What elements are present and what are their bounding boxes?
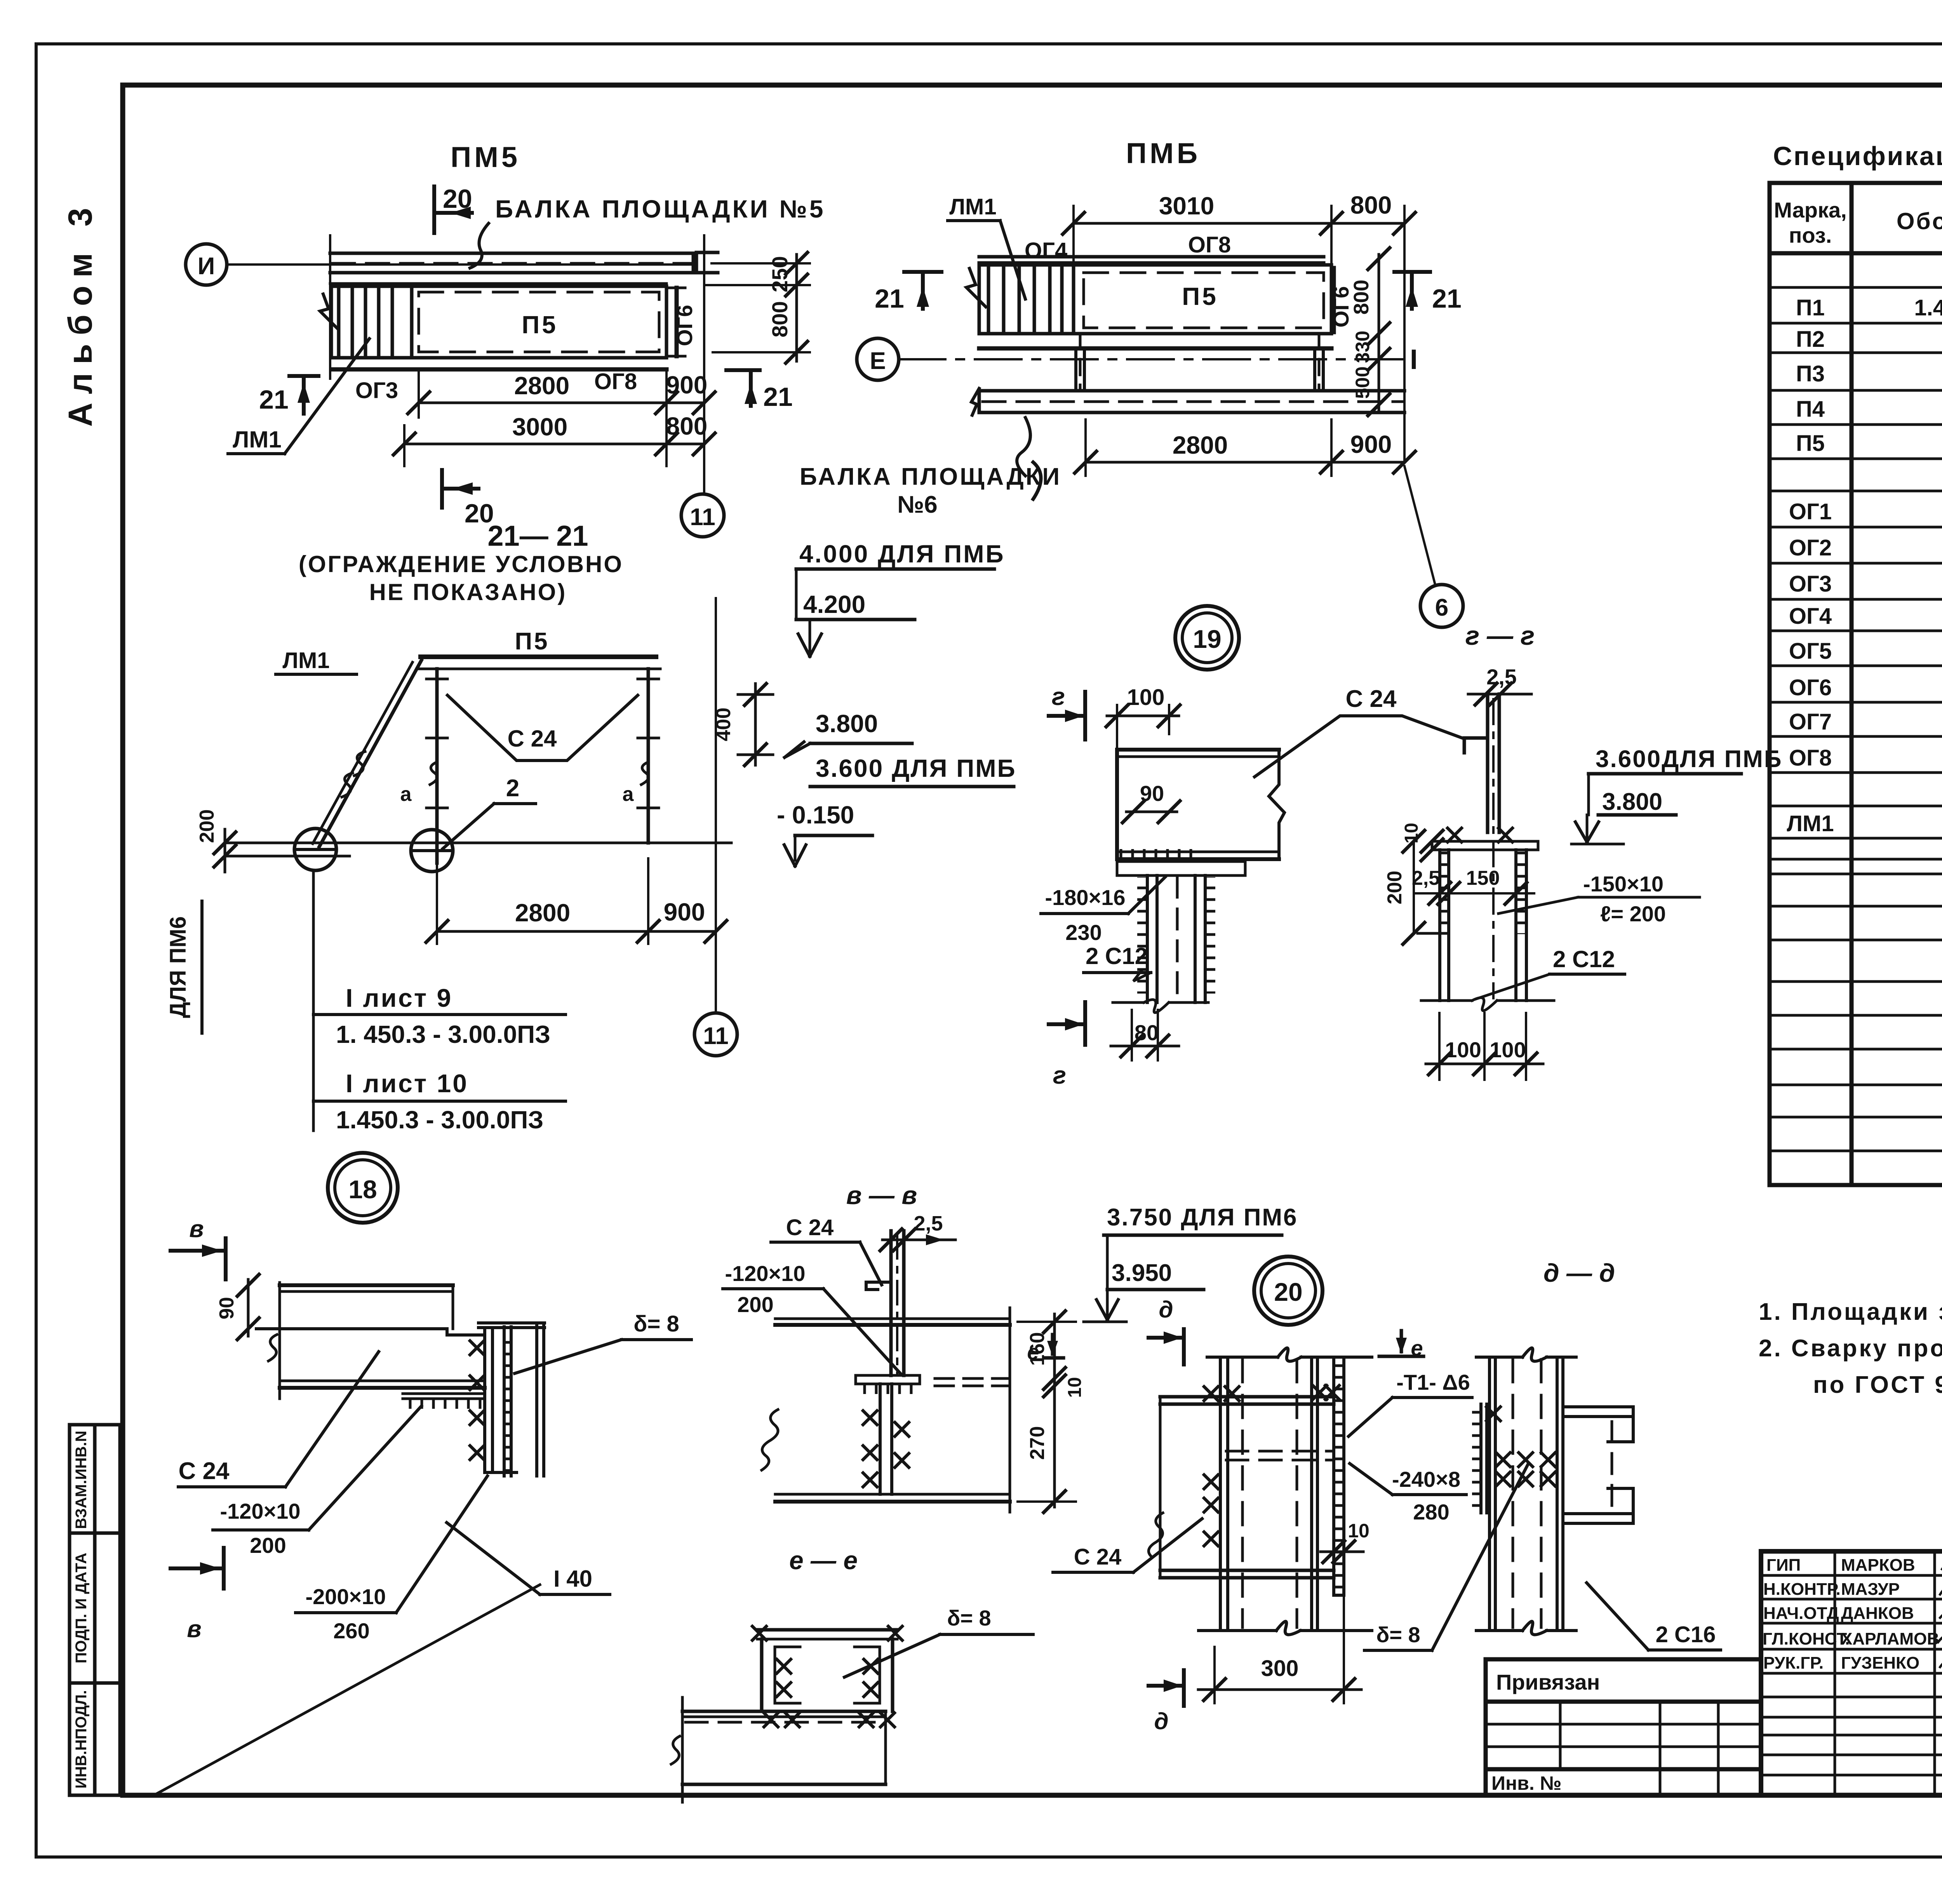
svg-text:2,5: 2,5 <box>1486 665 1517 689</box>
svg-text:ДЛЯ ПМ6: ДЛЯ ПМ6 <box>165 916 191 1018</box>
svg-text:21: 21 <box>1432 284 1462 313</box>
svg-text:ПМБ: ПМБ <box>1126 137 1201 169</box>
svg-text:800: 800 <box>666 412 708 440</box>
svg-text:I лист 10: I лист 10 <box>346 1069 468 1098</box>
svg-text:П5: П5 <box>522 311 558 339</box>
svg-text:4.200: 4.200 <box>803 590 865 618</box>
axis E circle and line <box>857 338 899 380</box>
svg-text:ПОДП. И ДАТА: ПОДП. И ДАТА <box>73 1553 90 1664</box>
box top plate <box>757 1628 897 1632</box>
walkway top edge <box>330 282 666 285</box>
axis circle 11 <box>681 494 724 537</box>
LEFT STAMP <box>70 1425 120 1795</box>
header texts <box>1774 198 1942 247</box>
svg-text:19: 19 <box>1193 625 1221 653</box>
section mark 21 left <box>904 272 941 309</box>
channel flange hook <box>866 1281 891 1284</box>
svg-text:НЕ ПОКАЗАНО): НЕ ПОКАЗАНО) <box>369 579 567 605</box>
left extension line <box>329 235 331 379</box>
section mark 21 left <box>289 376 318 414</box>
elevation right marks 400 <box>738 684 773 765</box>
NOTES <box>1759 1298 1942 1398</box>
inner channels <box>775 1647 800 1703</box>
svg-text:ОГ4: ОГ4 <box>1025 238 1067 263</box>
box sides <box>762 1639 893 1711</box>
svg-text:3000: 3000 <box>512 413 567 441</box>
svg-text:ПМ5: ПМ5 <box>451 141 520 173</box>
beam end bracket <box>696 252 718 273</box>
svg-text:200: 200 <box>1383 871 1406 905</box>
right vertical dims 800/330/500 <box>1378 254 1380 412</box>
svg-text:ГУЗЕНКО: ГУЗЕНКО <box>1841 1653 1919 1673</box>
posts to lower beam <box>1076 348 1323 391</box>
T1 plate <box>1332 1357 1335 1595</box>
svg-text:90: 90 <box>216 1297 238 1319</box>
column det20 cut lines <box>1207 1356 1278 1359</box>
axis 11 line + circle <box>715 598 717 1013</box>
svg-text:ЛМ1: ЛМ1 <box>949 194 996 219</box>
svg-text:900: 900 <box>664 898 705 926</box>
packer plate <box>403 1392 485 1395</box>
svg-text:900: 900 <box>666 371 708 399</box>
dim 2800/900 <box>1086 419 1331 476</box>
section mark 21 right <box>1394 272 1430 309</box>
svg-text:ОГ3: ОГ3 <box>1789 571 1832 597</box>
rib below plate <box>880 1384 892 1494</box>
dim line 3000/800 <box>404 443 704 446</box>
svg-text:3.600 ДЛЯ ПМБ: 3.600 ДЛЯ ПМБ <box>816 754 1016 782</box>
-240x8 plate in d-d <box>1479 1404 1483 1513</box>
ladder break arrow <box>320 294 338 329</box>
dim 2800/900 elevation <box>437 858 648 944</box>
svg-text:800: 800 <box>1350 191 1392 219</box>
axis line 11 vertical <box>703 235 705 494</box>
top chord <box>979 257 1324 263</box>
svg-text:20: 20 <box>443 184 472 214</box>
svg-text:3010: 3010 <box>1159 192 1214 220</box>
svg-text:П5: П5 <box>515 628 549 655</box>
svg-text:БАЛКА ПЛОЩАДКИ: БАЛКА ПЛОЩАДКИ <box>800 463 1061 490</box>
detail circle 19 <box>1175 606 1239 670</box>
signatures <box>1938 1562 1942 1673</box>
svg-text:Н.КОНТР.: Н.КОНТР. <box>1763 1580 1841 1599</box>
svg-text:260: 260 <box>333 1619 369 1643</box>
svg-text:в: в <box>189 1216 204 1243</box>
svg-text:21— 21: 21— 21 <box>487 520 588 552</box>
dim extensions <box>404 369 666 466</box>
svg-text:в — в: в — в <box>846 1181 917 1210</box>
platform P5 plan <box>412 286 666 358</box>
svg-text:ОГ5: ОГ5 <box>1789 639 1832 664</box>
svg-text:по ГОСТ 9467-75.: по ГОСТ 9467-75. <box>1813 1371 1942 1398</box>
svg-text:-240×8: -240×8 <box>1392 1467 1460 1492</box>
svg-text:Альбом 3: Альбом 3 <box>62 199 99 426</box>
svg-text:100: 100 <box>1127 685 1165 710</box>
svg-text:д — д: д — д <box>1544 1258 1615 1287</box>
svg-text:21: 21 <box>259 385 289 414</box>
svg-text:ОГ7: ОГ7 <box>1789 709 1832 734</box>
svg-text:С 24: С 24 <box>786 1215 834 1240</box>
svg-text:д: д <box>1154 1708 1168 1734</box>
svg-text:δ= 8: δ= 8 <box>633 1311 679 1337</box>
ground line <box>225 842 731 844</box>
svg-text:ИНВ.НПОДЛ.: ИНВ.НПОДЛ. <box>73 1690 90 1789</box>
svg-text:300: 300 <box>1261 1656 1299 1681</box>
svg-text:ДАНКОВ: ДАНКОВ <box>1841 1604 1914 1623</box>
beam leader label <box>1017 418 1030 476</box>
section mark 20 top <box>434 186 472 233</box>
column verticals <box>1220 1357 1317 1631</box>
svg-text:д: д <box>1159 1297 1173 1323</box>
300 dim <box>1215 1595 1344 1703</box>
beam det20 <box>1160 1397 1334 1578</box>
svg-text:250: 250 <box>767 256 792 292</box>
table grid <box>1770 183 1942 1185</box>
svg-text:г — г: г — г <box>1465 621 1535 651</box>
band below platform <box>979 332 1331 335</box>
svg-text:800: 800 <box>1350 280 1373 315</box>
svg-text:Спецификация элементов на п: Спецификация элементов на площадки ПМ1÷П… <box>1773 141 1942 171</box>
column flange <box>535 1323 538 1476</box>
svg-text:- 0.150: - 0.150 <box>777 801 854 829</box>
svg-text:Обозначение: Обозначение <box>1897 208 1942 234</box>
column end plate <box>483 1331 486 1472</box>
svg-text:3.600ДЛЯ ПМБ: 3.600ДЛЯ ПМБ <box>1596 746 1782 773</box>
svg-text:200: 200 <box>250 1533 286 1558</box>
channel C24 vertical (web) <box>1488 694 1499 832</box>
svg-text:поз.: поз. <box>1789 223 1832 247</box>
svg-text:I лист 9: I лист 9 <box>346 983 452 1012</box>
vertical channel V-V <box>891 1231 904 1375</box>
channel hook flange <box>1464 736 1488 740</box>
200 dim left <box>1413 841 1415 933</box>
svg-text:Привязан: Привязан <box>1496 1670 1600 1694</box>
svg-text:ОГ6: ОГ6 <box>672 305 697 346</box>
OG6 rail bar <box>675 288 679 356</box>
posts <box>437 669 648 863</box>
svg-text:ОГ1: ОГ1 <box>1789 499 1832 524</box>
dim line 2800/900 <box>419 402 704 404</box>
svg-text:ХАРЛАМОВ: ХАРЛАМОВ <box>1841 1629 1939 1648</box>
svg-text:е — е: е — е <box>789 1546 858 1575</box>
beam below e-e <box>682 1710 886 1713</box>
TITLE BLOCK <box>1761 1551 1942 1795</box>
svg-text:δ= 8: δ= 8 <box>1376 1622 1420 1647</box>
lower beam no.6 <box>979 391 1404 412</box>
2C16 beam section right <box>1564 1407 1633 1523</box>
svg-text:900: 900 <box>1350 430 1392 458</box>
right vertical dims 250/800 <box>706 263 810 352</box>
svg-text:ОГ8: ОГ8 <box>594 369 637 394</box>
slab <box>421 654 656 659</box>
beam V-V <box>775 1319 1010 1494</box>
svg-text:ГЛ.КОНСТ.: ГЛ.КОНСТ. <box>1763 1629 1850 1648</box>
det19 column bottom cut <box>1113 1001 1144 1004</box>
svg-text:№6: №6 <box>897 491 938 518</box>
svg-text:3.950: 3.950 <box>1112 1260 1172 1286</box>
svg-text:П4: П4 <box>1796 397 1825 422</box>
svg-text:а: а <box>400 783 412 806</box>
svg-text:2800: 2800 <box>514 372 569 400</box>
svg-text:-200×10: -200×10 <box>305 1584 386 1609</box>
svg-text:10: 10 <box>1348 1520 1369 1542</box>
svg-text:100: 100 <box>1445 1037 1481 1062</box>
column 2C12 det19 <box>1147 875 1205 1002</box>
section mark g bottom <box>1049 1002 1085 1045</box>
table body <box>1787 258 1942 836</box>
ladder LM1 plan <box>331 286 412 358</box>
weld cluster <box>1496 1453 1510 1467</box>
svg-text:РУК.ГР.: РУК.ГР. <box>1763 1653 1824 1673</box>
svg-text:2800: 2800 <box>1173 431 1228 459</box>
svg-text:1. Площадки замаркированы на: 1. Площадки замаркированы на листе 19. <box>1759 1298 1942 1325</box>
elevation arrow down to slab <box>809 620 811 656</box>
beam bottom flange <box>280 1380 485 1382</box>
column d-d cut lines <box>1476 1356 1523 1359</box>
svg-text:П5: П5 <box>1182 282 1218 310</box>
beam left edge + break <box>278 1283 281 1399</box>
svg-text:ВЗАМ.ИНВ.N: ВЗАМ.ИНВ.N <box>73 1431 90 1529</box>
svg-text:а: а <box>623 783 634 806</box>
svg-text:Инв. №: Инв. № <box>1491 1772 1561 1794</box>
svg-text:П1: П1 <box>1796 295 1825 320</box>
svg-text:2 С16: 2 С16 <box>1656 1622 1716 1647</box>
base plate det19 <box>1117 861 1245 875</box>
svg-text:г: г <box>1053 1061 1066 1089</box>
svg-text:280: 280 <box>1413 1500 1449 1524</box>
axis circle 6 <box>1404 466 1435 585</box>
svg-text:2 С12: 2 С12 <box>1553 946 1615 972</box>
plate G-G <box>1432 841 1538 850</box>
column verticals d-d <box>1490 1357 1563 1631</box>
svg-text:2800: 2800 <box>515 899 570 927</box>
svg-text:2 С12: 2 С12 <box>1086 943 1148 969</box>
svg-text:3.750 ДЛЯ ПМ6: 3.750 ДЛЯ ПМ6 <box>1107 1204 1298 1231</box>
svg-text:-150×10: -150×10 <box>1583 872 1664 896</box>
section mark 20 bottom <box>442 470 479 508</box>
svg-text:11: 11 <box>703 1023 729 1049</box>
svg-text:С 24: С 24 <box>508 726 557 752</box>
svg-text:1. 450.3 - 3.00.0ПЗ: 1. 450.3 - 3.00.0ПЗ <box>336 1020 550 1048</box>
svg-text:3.800: 3.800 <box>1602 788 1662 815</box>
svg-text:ОГ8: ОГ8 <box>1789 745 1832 771</box>
bottom rail band <box>331 356 666 359</box>
svg-text:330: 330 <box>1352 331 1373 363</box>
svg-text:2,5: 2,5 <box>914 1212 943 1235</box>
svg-text:БАЛКА ПЛОЩАДКИ №5: БАЛКА ПЛОЩАДКИ №5 <box>495 195 825 223</box>
ladder stringer <box>319 660 421 847</box>
svg-text:270: 270 <box>1026 1426 1049 1460</box>
ladder plan <box>979 265 1074 334</box>
beam top flange <box>256 1327 447 1330</box>
svg-text:4.000 ДЛЯ ПМБ: 4.000 ДЛЯ ПМБ <box>799 540 1005 568</box>
channel C24 horizontal <box>1117 750 1279 859</box>
svg-text:δ= 8: δ= 8 <box>947 1606 991 1630</box>
svg-text:-180×16: -180×16 <box>1045 885 1125 910</box>
svg-text:Е: Е <box>870 348 886 374</box>
svg-text:-120×10: -120×10 <box>725 1261 805 1286</box>
200 dim <box>224 829 226 872</box>
svg-text:3.800: 3.800 <box>816 710 878 738</box>
svg-text:ЛМ1: ЛМ1 <box>233 426 281 453</box>
svg-text:С 24: С 24 <box>1346 686 1397 712</box>
svg-text:ЛМ1: ЛМ1 <box>282 648 329 673</box>
section mark V bottom <box>171 1548 224 1589</box>
platform P5 plan <box>1074 265 1331 334</box>
svg-text:ОГ3: ОГ3 <box>355 378 398 403</box>
svg-text:П5: П5 <box>1796 431 1825 456</box>
list references <box>312 870 315 1131</box>
svg-text:10: 10 <box>1065 1377 1085 1398</box>
svg-text:МАЗУР: МАЗУР <box>1841 1580 1900 1599</box>
svg-text:С 24: С 24 <box>1074 1544 1122 1570</box>
column web <box>504 1332 512 1474</box>
svg-text:1.450.3 - 3.00.0ПЗ: 1.450.3 - 3.00.0ПЗ <box>336 1106 543 1134</box>
svg-text:-Т1- Δ6: -Т1- Δ6 <box>1396 1370 1470 1394</box>
long diagonal leader <box>155 1585 540 1794</box>
svg-text:НАЧ.ОТД: НАЧ.ОТД <box>1763 1604 1839 1623</box>
column bottom cut G-G <box>1421 999 1472 1002</box>
base circles <box>294 828 336 870</box>
svg-text:г: г <box>1052 682 1065 710</box>
approval grid <box>1761 1551 1942 1795</box>
svg-text:1.450.3-3 в.0: 1.450.3-3 в.0 <box>1914 295 1942 320</box>
svg-text:И: И <box>198 253 215 280</box>
svg-text:200: 200 <box>737 1292 773 1317</box>
svg-text:Марка,: Марка, <box>1774 198 1846 222</box>
dims 100 100 <box>1439 1013 1526 1080</box>
PRIVYAZAN BLOCK <box>1486 1659 1761 1795</box>
detail circle 18 <box>328 1153 398 1223</box>
column channels G-G <box>1440 850 1526 1001</box>
axis circle I <box>186 244 227 285</box>
svg-text:ОГ4: ОГ4 <box>1789 604 1832 629</box>
svg-text:I: I <box>1410 344 1418 375</box>
svg-text:2,5: 2,5 <box>1412 867 1440 889</box>
svg-text:е: е <box>1027 1340 1039 1364</box>
svg-text:С 24: С 24 <box>179 1458 230 1485</box>
svg-text:ГИП: ГИП <box>1766 1556 1801 1575</box>
svg-text:2. Сварку производить элек: 2. Сварку производить электродами типа Э… <box>1759 1335 1942 1362</box>
svg-text:ОГ8: ОГ8 <box>1188 232 1231 258</box>
svg-text:-120×10: -120×10 <box>220 1499 300 1523</box>
svg-text:6: 6 <box>1435 594 1448 621</box>
top dim 3010/800 <box>1074 206 1404 462</box>
svg-text:ЛМ1: ЛМ1 <box>1787 811 1834 836</box>
dims 160/10/270 <box>1053 1314 1056 1507</box>
svg-text:150: 150 <box>1466 867 1500 889</box>
svg-text:21: 21 <box>763 382 793 412</box>
svg-text:ℓ= 200: ℓ= 200 <box>1600 902 1666 926</box>
section mark 21 right <box>726 370 760 406</box>
svg-text:П3: П3 <box>1796 361 1825 386</box>
svg-text:11: 11 <box>690 504 715 531</box>
svg-text:10: 10 <box>1401 823 1422 843</box>
svg-text:230: 230 <box>1065 920 1102 945</box>
svg-text:I 40: I 40 <box>553 1566 592 1592</box>
svg-text:18: 18 <box>348 1175 377 1204</box>
plate V-V <box>856 1375 920 1384</box>
svg-text:200: 200 <box>196 809 218 843</box>
svg-text:100: 100 <box>1490 1037 1526 1062</box>
beam top chord <box>330 253 693 273</box>
top chord det18 <box>280 1283 453 1287</box>
svg-text:П2: П2 <box>1796 327 1825 352</box>
axis line <box>227 263 695 266</box>
svg-text:в: в <box>187 1616 201 1643</box>
svg-text:ОГ2: ОГ2 <box>1789 535 1832 560</box>
OG6 bar <box>1332 268 1336 332</box>
svg-text:(ОГРАЖДЕНИЕ УСЛОВНО: (ОГРАЖДЕНИЕ УСЛОВНО <box>299 551 623 577</box>
svg-text:800: 800 <box>767 301 792 337</box>
svg-text:ОГ6: ОГ6 <box>1789 675 1832 700</box>
svg-text:20: 20 <box>1274 1277 1302 1306</box>
svg-text:500: 500 <box>1352 366 1373 399</box>
svg-text:МАРКОВ: МАРКОВ <box>1841 1556 1915 1575</box>
dim 90 <box>247 1279 250 1336</box>
svg-text:21: 21 <box>875 284 904 313</box>
svg-text:2: 2 <box>506 775 519 802</box>
